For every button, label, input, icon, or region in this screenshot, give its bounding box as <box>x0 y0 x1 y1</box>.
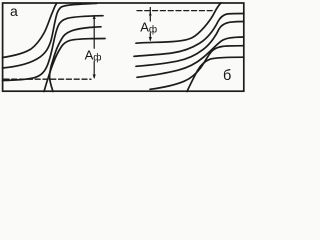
curve E <box>44 39 105 92</box>
curve R5 <box>150 46 244 90</box>
dashed line left <box>4 78 91 80</box>
curve R4 <box>137 37 244 77</box>
curve R1 <box>136 3 221 43</box>
curve B <box>3 3 98 68</box>
curve C <box>3 16 104 81</box>
arrowhead right up <box>149 12 152 16</box>
curve D <box>50 27 101 92</box>
arrowhead left down <box>93 75 96 80</box>
svg-text:б: б <box>223 68 231 84</box>
curve R2 <box>134 14 244 57</box>
curve R6 <box>187 57 244 91</box>
arrowhead right down <box>149 37 152 42</box>
dashed line right <box>137 10 213 12</box>
arrowhead left up <box>93 15 96 19</box>
svg-text:а: а <box>10 3 18 19</box>
curve A <box>3 3 57 57</box>
measure line left <box>93 17 95 78</box>
measure line right <box>149 8 151 41</box>
curve R3 <box>136 22 244 67</box>
